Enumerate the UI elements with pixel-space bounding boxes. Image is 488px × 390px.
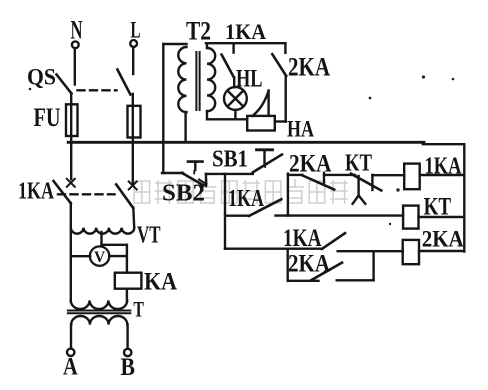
svg-text:2KA: 2KA — [288, 53, 330, 82]
svg-text:B: B — [121, 354, 136, 381]
svg-text:1KA: 1KA — [228, 186, 265, 212]
svg-text:1KA: 1KA — [225, 19, 266, 44]
svg-text:V: V — [94, 249, 106, 266]
svg-text:HA: HA — [287, 117, 314, 142]
svg-text:T: T — [133, 297, 144, 322]
svg-text:2KA: 2KA — [422, 227, 464, 252]
svg-text:FU: FU — [34, 103, 61, 132]
svg-text:SB1: SB1 — [212, 147, 248, 173]
svg-text:KT: KT — [345, 151, 372, 177]
svg-text:1KA: 1KA — [425, 154, 463, 180]
svg-text:L: L — [131, 18, 141, 43]
svg-text:QS: QS — [27, 65, 56, 90]
svg-text:KA: KA — [144, 269, 177, 296]
svg-text:A: A — [63, 354, 78, 381]
svg-text:VT: VT — [137, 222, 161, 249]
svg-text:SB2: SB2 — [162, 180, 205, 207]
svg-text:N: N — [71, 15, 83, 44]
svg-text:1KA: 1KA — [283, 225, 322, 252]
svg-text:1KA: 1KA — [18, 179, 55, 205]
svg-text:KT: KT — [424, 194, 452, 221]
svg-text:2KA: 2KA — [288, 251, 330, 278]
svg-text:HL: HL — [236, 64, 263, 93]
svg-text:T2: T2 — [186, 17, 211, 46]
svg-text:2KA: 2KA — [289, 151, 332, 178]
